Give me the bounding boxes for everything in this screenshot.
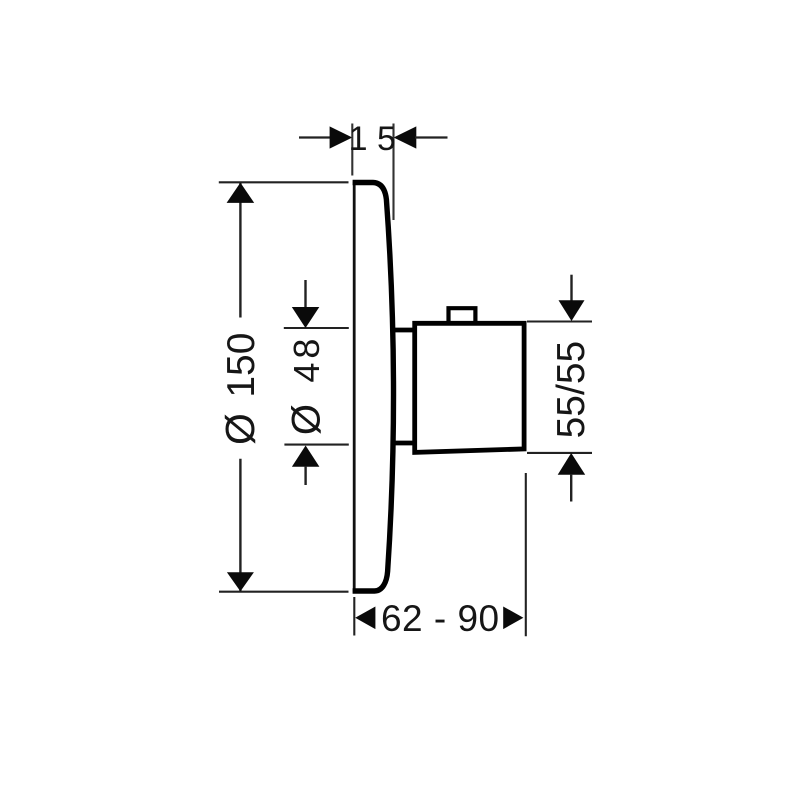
- dim D150: top arrow: [227, 183, 255, 203]
- dim D48: bottom arrow: [292, 446, 320, 467]
- dim D48: bottom leader line: [304, 466, 306, 485]
- dim 55/55: top leader line: [570, 275, 572, 301]
- dim D150: vertical dimension line lower segment: [239, 459, 241, 591]
- dim D150: vertical dimension line upper segment: [239, 183, 241, 318]
- dim 15: right dimension line: [415, 136, 448, 138]
- dim D48: top leader line: [304, 280, 306, 308]
- svg-text:55/55: 55/55: [550, 341, 593, 439]
- dim 62-90: right arrow: [503, 607, 523, 630]
- dim 55/55: bottom arrow: [558, 453, 586, 475]
- knob body: [415, 323, 524, 452]
- dim 15: left arrow: [330, 126, 353, 148]
- dim 15: right arrow: [394, 126, 417, 148]
- dim 55/55: bottom leader line: [570, 474, 572, 502]
- svg-text:62 - 90: 62 - 90: [381, 598, 500, 639]
- valve neck bottom line: [393, 441, 415, 446]
- dim 15: right extension line: [392, 124, 394, 221]
- escutcheon plate outline (top edge, convex face, bottom edge): [353, 183, 394, 592]
- dim 62-90: left extension line: [353, 597, 355, 636]
- svg-text:1 5: 1 5: [349, 120, 396, 158]
- dim D150: bottom extension line: [219, 591, 349, 593]
- dim 62-90: right extension line: [525, 473, 527, 636]
- knob top tab: [449, 308, 476, 322]
- dim D48: bottom extension line: [284, 444, 348, 446]
- dim D48: top arrow: [292, 307, 320, 328]
- dim 62-90: left arrow: [355, 607, 375, 630]
- dim 55/55: top arrow: [559, 300, 585, 321]
- dim D48: top extension line: [284, 327, 349, 329]
- svg-text:48: 48: [286, 335, 327, 383]
- svg-text:150: 150: [220, 333, 263, 398]
- valve neck top line: [393, 328, 415, 333]
- dim 55/55: bottom extension line: [527, 452, 592, 454]
- dim 55/55: top extension line: [527, 320, 592, 322]
- svg-text:Ø: Ø: [285, 404, 329, 435]
- dim 15: left dimension line: [299, 136, 331, 138]
- svg-text:Ø: Ø: [217, 413, 263, 445]
- dim D150: top extension line: [219, 181, 349, 183]
- escutcheon plate left edge: [353, 182, 356, 593]
- dim D150: bottom arrow: [227, 572, 254, 591]
- dim 15: left extension line: [351, 124, 353, 176]
